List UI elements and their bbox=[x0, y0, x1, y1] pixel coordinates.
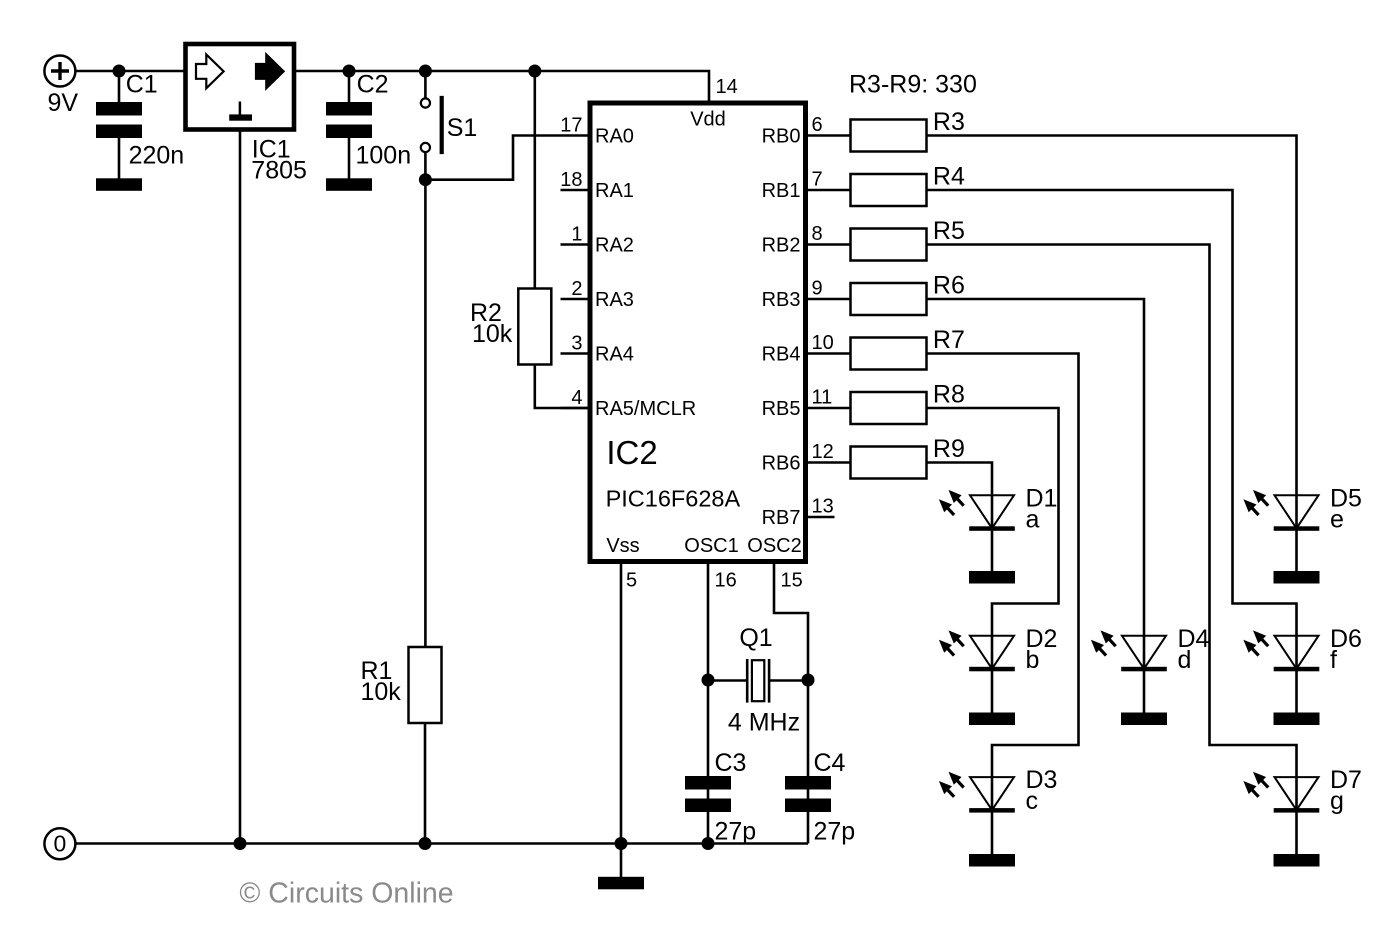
capacitor C1 bbox=[96, 102, 142, 116]
resistor R6 330 bbox=[851, 283, 927, 315]
svg-text:g: g bbox=[1330, 787, 1344, 815]
LED D3 segment c bbox=[970, 777, 1014, 810]
ground below C2 bbox=[326, 178, 372, 191]
wire to S1 bbox=[424, 71, 427, 98]
wire node to R1 bbox=[424, 180, 427, 648]
svg-text:RB7: RB7 bbox=[762, 507, 801, 529]
svg-text:27p: 27p bbox=[814, 818, 856, 846]
svg-text:OSC1: OSC1 bbox=[684, 535, 738, 557]
9V supply terminal bbox=[44, 56, 75, 87]
wire +5V to R2 bbox=[533, 71, 536, 288]
svg-text:10: 10 bbox=[812, 332, 834, 354]
svg-text:RB5: RB5 bbox=[762, 398, 801, 420]
pin 18 RA1 bbox=[561, 189, 591, 192]
wire R6 to D4 bbox=[927, 299, 1145, 713]
0V terminal bbox=[44, 828, 75, 859]
LED D5 segment e bbox=[1275, 495, 1319, 528]
resistor R2 10k bbox=[518, 289, 551, 365]
wire R8 to D2 bbox=[927, 408, 1059, 713]
capacitor C4 bbox=[785, 776, 831, 790]
pin 13 RB7 bbox=[806, 516, 835, 519]
resistor R1 10k bbox=[409, 647, 442, 723]
svg-text:R7: R7 bbox=[933, 326, 965, 354]
svg-text:7805: 7805 bbox=[251, 156, 307, 184]
pin 3 RA4 bbox=[561, 352, 591, 355]
node crystal right bbox=[802, 674, 815, 687]
svg-text:R9: R9 bbox=[933, 435, 965, 463]
wire R2 to RA5/MCLR bbox=[535, 365, 588, 408]
svg-text:RA1: RA1 bbox=[595, 180, 634, 202]
resistor R7 330 bbox=[851, 338, 927, 370]
svg-text:RA3: RA3 bbox=[595, 289, 634, 311]
wire to C1 bbox=[118, 71, 121, 102]
svg-text:3: 3 bbox=[571, 333, 582, 355]
wire R4 to D6 bbox=[927, 190, 1297, 713]
node rail IC1 column bbox=[234, 837, 247, 850]
crystal Q1 4 MHz bbox=[708, 679, 808, 682]
svg-text:RA0: RA0 bbox=[595, 126, 634, 148]
svg-text:RB0: RB0 bbox=[762, 126, 801, 148]
switch S1 bbox=[421, 98, 430, 107]
wire OSC2 pin 15 through C4 bbox=[774, 564, 808, 844]
svg-text:C3: C3 bbox=[715, 749, 747, 777]
pin 9 RB3 bbox=[806, 298, 851, 301]
wire +5V rail to IC2 pin 14 bbox=[294, 71, 709, 104]
wire R7 to D3 bbox=[927, 354, 1079, 855]
LED D1 segment a bbox=[970, 495, 1014, 528]
svg-text:PIC16F628A: PIC16F628A bbox=[606, 486, 741, 512]
svg-text:d: d bbox=[1178, 646, 1192, 674]
svg-text:Q1: Q1 bbox=[739, 624, 772, 652]
svg-text:9: 9 bbox=[812, 278, 823, 300]
svg-text:9V: 9V bbox=[48, 89, 79, 117]
svg-text:RB1: RB1 bbox=[762, 180, 801, 202]
pin 1 RA2 bbox=[561, 243, 591, 246]
node crystal left bbox=[702, 674, 715, 687]
svg-text:R4: R4 bbox=[933, 163, 965, 191]
svg-text:© Circuits Online: © Circuits Online bbox=[239, 878, 453, 910]
svg-text:11: 11 bbox=[812, 387, 833, 409]
resistor R3 330 bbox=[851, 120, 927, 152]
svg-text:8: 8 bbox=[812, 223, 823, 245]
wire 0V bottom rail bbox=[75, 842, 808, 845]
node Vss at rail bbox=[615, 837, 628, 850]
svg-text:a: a bbox=[1026, 505, 1040, 533]
pin 10 RB4 bbox=[806, 352, 851, 355]
svg-text:e: e bbox=[1330, 505, 1344, 533]
wire C1 to ground bbox=[118, 138, 121, 179]
ground below D7 bbox=[1274, 854, 1320, 867]
svg-text:16: 16 bbox=[715, 570, 737, 592]
svg-text:100n: 100n bbox=[356, 142, 412, 170]
ground below D2 bbox=[969, 713, 1015, 726]
pin 4 RA5/MCLR bbox=[561, 407, 591, 410]
svg-text:C2: C2 bbox=[357, 71, 389, 99]
svg-text:C4: C4 bbox=[814, 749, 846, 777]
svg-text:10k: 10k bbox=[361, 678, 402, 706]
LED D6 segment f bbox=[1275, 636, 1319, 669]
IC1 output arrow (solid) bbox=[256, 55, 284, 89]
ground below D6 bbox=[1274, 713, 1320, 726]
wire R5 to D7 bbox=[927, 245, 1297, 855]
svg-text:0: 0 bbox=[54, 831, 67, 857]
svg-text:IC2: IC2 bbox=[606, 434, 657, 471]
svg-text:13: 13 bbox=[812, 496, 834, 518]
svg-text:18: 18 bbox=[560, 169, 582, 191]
ground main bbox=[598, 877, 644, 890]
ground below D1 bbox=[969, 571, 1015, 584]
wire S1 to node bbox=[424, 152, 427, 179]
node rail R1 column bbox=[419, 837, 432, 850]
ground below D4 bbox=[1121, 713, 1167, 726]
node rail C3 column bbox=[702, 837, 715, 850]
svg-text:R6: R6 bbox=[933, 272, 965, 300]
voltage regulator IC1 7805 bbox=[186, 44, 295, 130]
svg-text:RA2: RA2 bbox=[595, 235, 634, 257]
capacitor C3 bbox=[685, 776, 731, 790]
svg-text:12: 12 bbox=[812, 441, 834, 463]
pin 8 RB2 bbox=[806, 243, 851, 246]
svg-text:OSC2: OSC2 bbox=[747, 535, 801, 557]
wire R9 to D1 bbox=[927, 463, 993, 572]
node R2 top tap bbox=[528, 65, 541, 78]
LED D4 segment d bbox=[1122, 636, 1166, 669]
svg-text:2: 2 bbox=[571, 278, 582, 300]
svg-text:1: 1 bbox=[571, 224, 582, 246]
svg-text:S1: S1 bbox=[447, 114, 478, 142]
svg-text:R5: R5 bbox=[933, 217, 965, 245]
svg-text:RB2: RB2 bbox=[762, 235, 801, 257]
svg-text:R3-R9: 330: R3-R9: 330 bbox=[849, 71, 977, 99]
svg-text:RB3: RB3 bbox=[762, 289, 801, 311]
pin 2 RA3 bbox=[561, 298, 591, 301]
pin 11 RB5 bbox=[806, 407, 851, 410]
svg-text:c: c bbox=[1026, 787, 1039, 815]
svg-text:4: 4 bbox=[571, 387, 582, 409]
svg-text:f: f bbox=[1330, 646, 1337, 674]
resistor R5 330 bbox=[851, 229, 927, 261]
wire IC1 ground to 0 rail bbox=[239, 129, 242, 843]
ground below C1 bbox=[96, 178, 142, 191]
LED D2 segment b bbox=[970, 636, 1014, 669]
node S1 bottom junction bbox=[419, 173, 432, 186]
IC1 ground pin symbol bbox=[239, 102, 242, 116]
svg-text:7: 7 bbox=[812, 169, 823, 191]
node C2 tap bbox=[343, 65, 356, 78]
svg-text:15: 15 bbox=[781, 570, 803, 592]
svg-text:17: 17 bbox=[560, 115, 582, 137]
wire Vss pin 5 to 0 rail bbox=[620, 564, 623, 844]
svg-text:4 MHz: 4 MHz bbox=[728, 709, 800, 737]
svg-text:220n: 220n bbox=[129, 142, 185, 170]
svg-text:C1: C1 bbox=[126, 71, 158, 99]
wire R3 to D5 bbox=[927, 136, 1297, 572]
svg-text:10k: 10k bbox=[472, 320, 513, 348]
pin 6 RB0 bbox=[806, 134, 851, 137]
resistor R4 330 bbox=[851, 174, 927, 206]
IC1 input arrow (open) bbox=[196, 55, 224, 89]
ground below D3 bbox=[969, 854, 1015, 867]
node C1 tap bbox=[113, 65, 126, 78]
pin 7 RB1 bbox=[806, 189, 851, 192]
wire to C2 bbox=[348, 71, 351, 102]
pin 12 RB6 bbox=[806, 461, 851, 464]
resistor R9 330 bbox=[851, 447, 927, 479]
wire OSC1 pin 16 through C3 to rail bbox=[707, 564, 710, 844]
wire S1 to RA0 bbox=[425, 136, 587, 180]
svg-text:14: 14 bbox=[716, 76, 738, 98]
wire +9V terminal to IC1 input bbox=[75, 70, 185, 73]
wire R1 to 0 rail bbox=[424, 723, 427, 844]
svg-text:RB6: RB6 bbox=[762, 453, 801, 475]
svg-text:5: 5 bbox=[626, 570, 637, 592]
node S1 top tap bbox=[419, 65, 432, 78]
svg-text:Vdd: Vdd bbox=[690, 109, 726, 131]
wire to main ground bbox=[620, 844, 623, 878]
resistor R8 330 bbox=[851, 392, 927, 424]
microcontroller IC2 PIC16F628A bbox=[590, 103, 806, 562]
svg-text:RA4: RA4 bbox=[595, 344, 634, 366]
ground below D5 bbox=[1274, 571, 1320, 584]
svg-text:R3: R3 bbox=[933, 108, 965, 136]
svg-text:RA5/MCLR: RA5/MCLR bbox=[595, 398, 696, 420]
svg-text:R8: R8 bbox=[933, 381, 965, 409]
svg-text:RB4: RB4 bbox=[762, 344, 801, 366]
svg-text:6: 6 bbox=[812, 114, 823, 136]
svg-text:Vss: Vss bbox=[606, 535, 639, 557]
svg-text:b: b bbox=[1026, 646, 1040, 674]
svg-text:27p: 27p bbox=[715, 818, 757, 846]
capacitor C2 bbox=[326, 102, 372, 116]
wire C2 to ground bbox=[348, 138, 351, 179]
LED D7 segment g bbox=[1275, 777, 1319, 810]
